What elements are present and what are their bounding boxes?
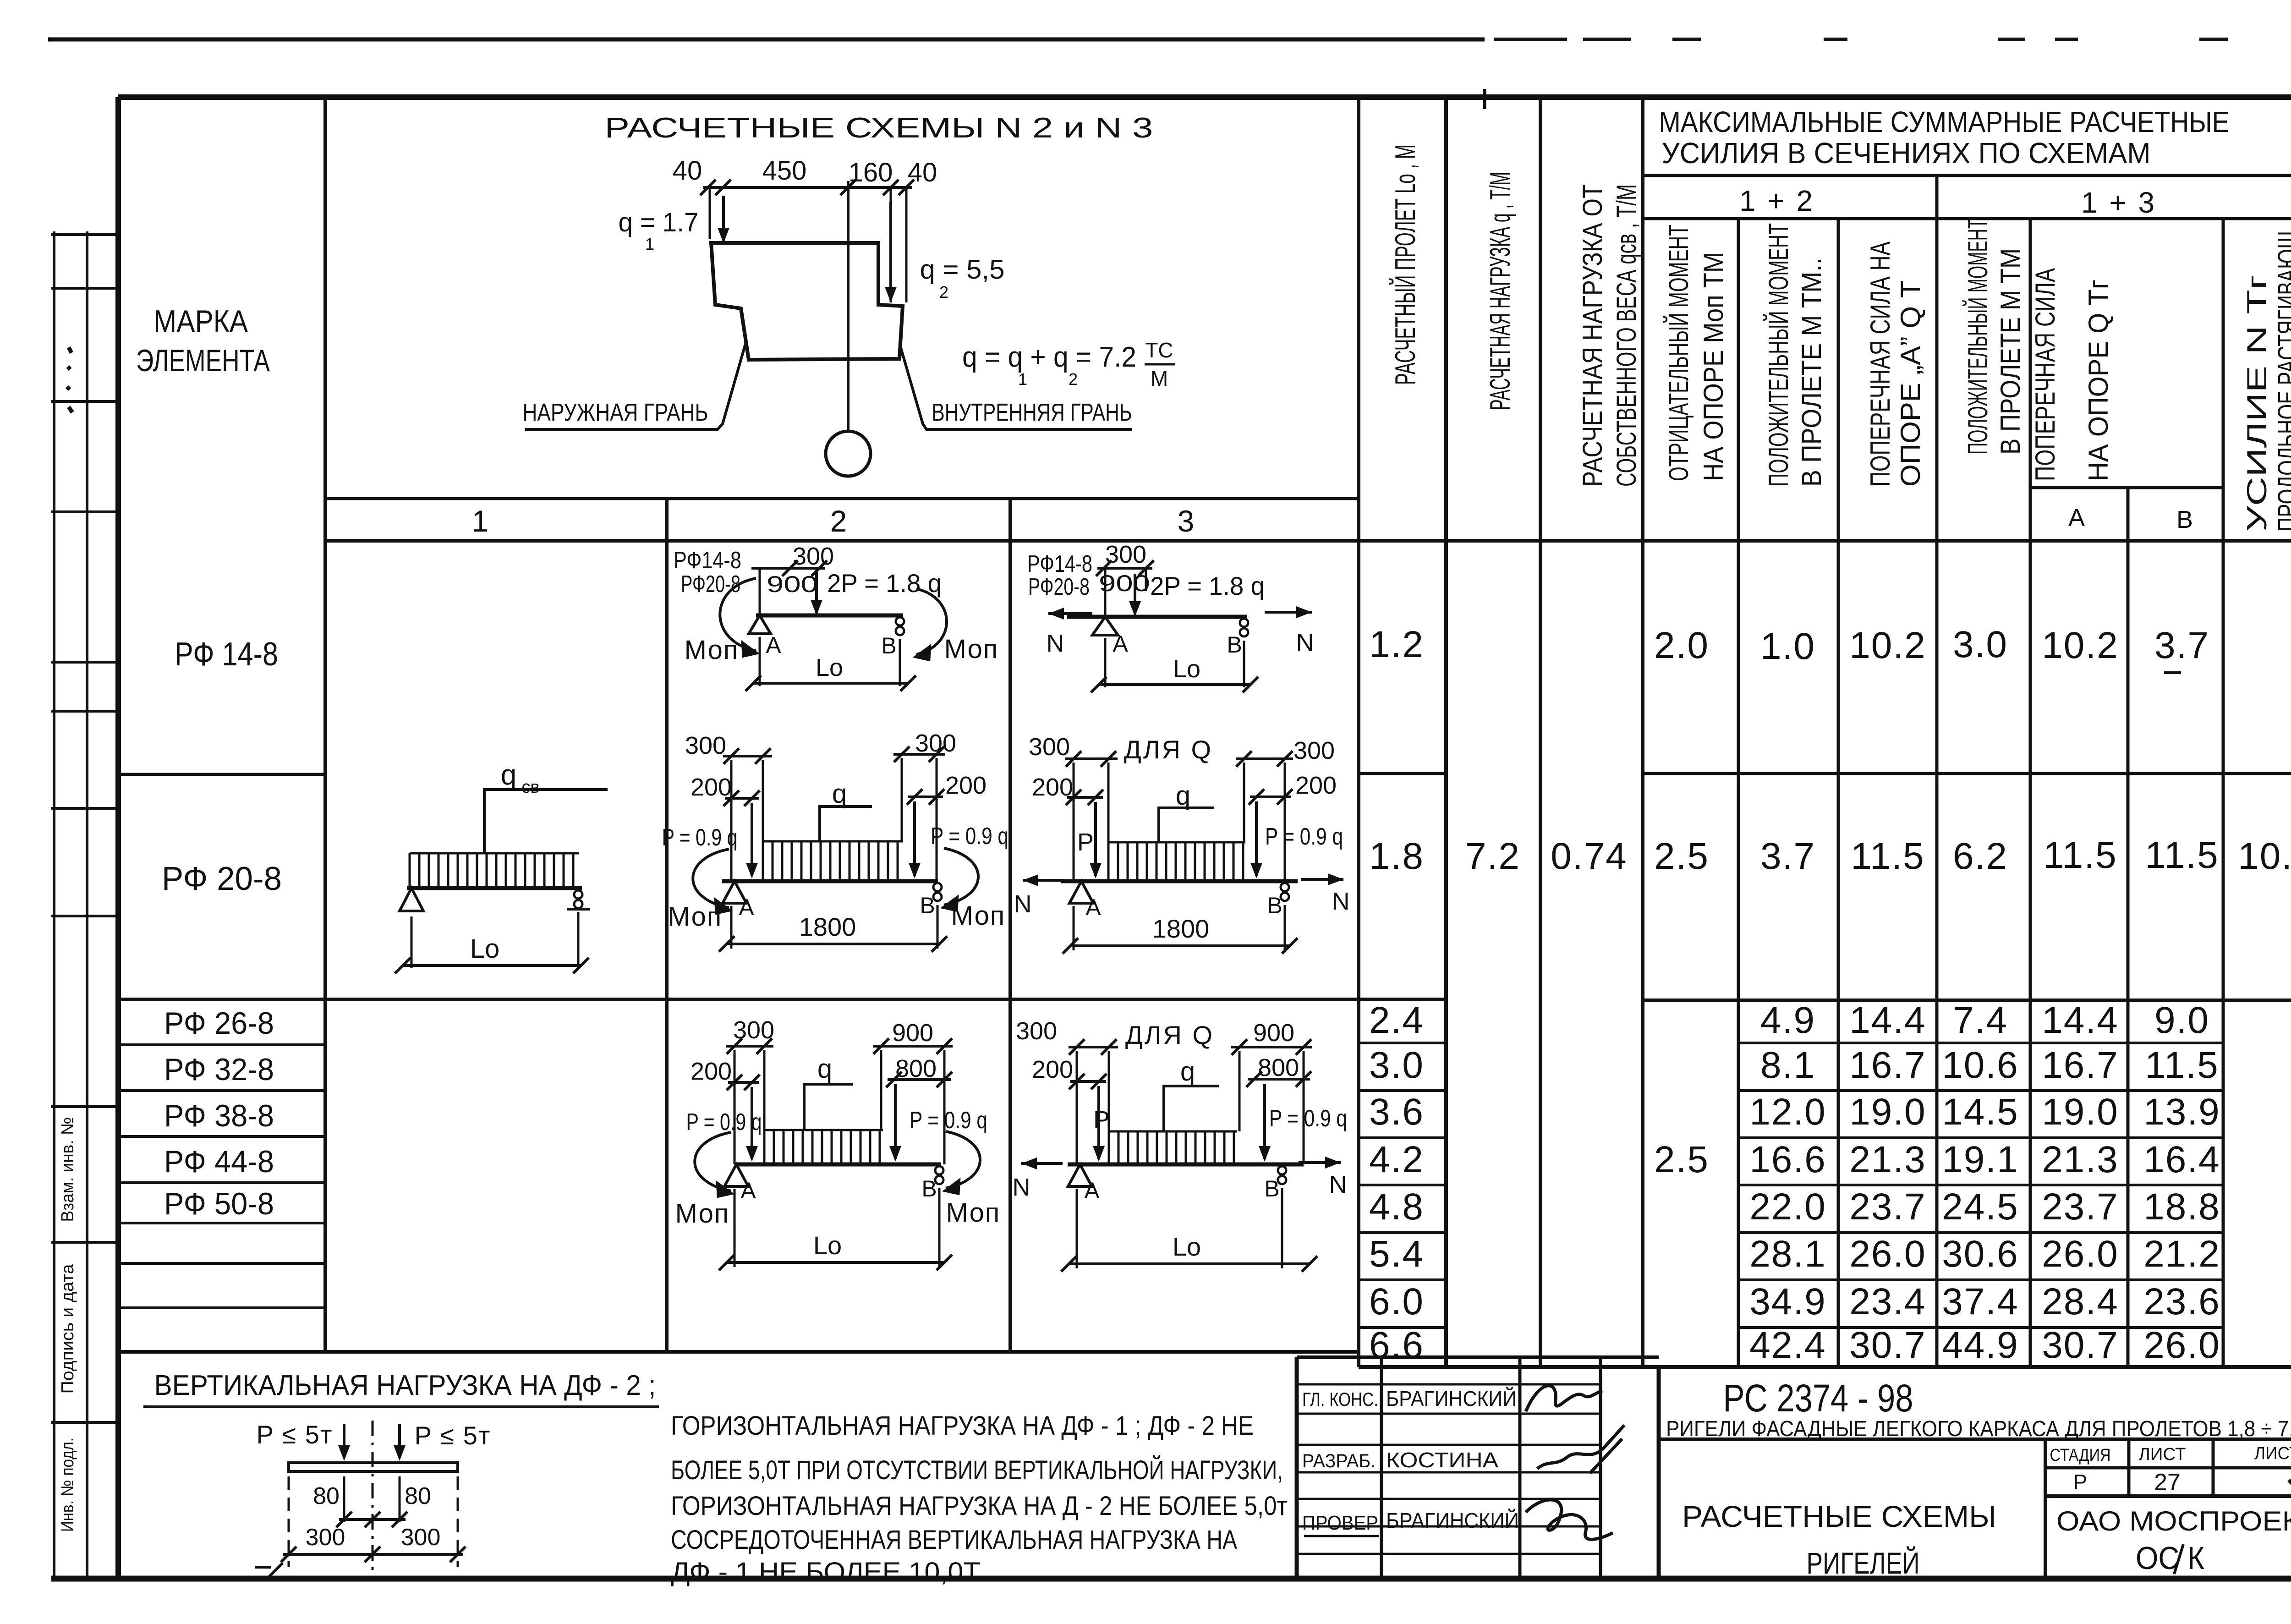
svg-text:В: В	[921, 1176, 937, 1202]
svg-text:В: В	[2176, 506, 2193, 533]
svg-text:3.0: 3.0	[1953, 624, 2008, 665]
narrow row lines marka column	[118, 1043, 325, 1046]
svg-text:8.1: 8.1	[1760, 1044, 1815, 1086]
svg-text:В ПРОЛЕТЕ М ТМ: В ПРОЛЕТЕ М ТМ	[1995, 248, 2026, 455]
svg-text:N: N	[1329, 1171, 1347, 1198]
c2m distributed load	[763, 841, 903, 880]
svg-text:ТС: ТС	[1145, 338, 1173, 362]
svg-text:1 + 3: 1 + 3	[2081, 186, 2156, 219]
svg-text:БРАГИНСКИЙ: БРАГИНСКИЙ	[1386, 1387, 1517, 1410]
svg-text:P = 0.9 q: P = 0.9 q	[910, 1107, 987, 1134]
svg-text:1800: 1800	[799, 912, 856, 941]
svg-text:900: 900	[1099, 571, 1150, 596]
svg-text:11.5: 11.5	[2043, 834, 2117, 876]
svg-text:q: q	[501, 759, 516, 791]
svg-text:СТАДИЯ: СТАДИЯ	[2050, 1446, 2111, 1465]
svg-text:В: В	[881, 633, 896, 658]
svg-text:300: 300	[1016, 1017, 1057, 1045]
svg-text:СОБСТВЕННОГО ВЕСА qсв , Т/М: СОБСТВЕННОГО ВЕСА qсв , Т/М	[1611, 184, 1642, 487]
c3l distributed load	[1109, 1131, 1237, 1163]
svg-text:4.2: 4.2	[1369, 1139, 1424, 1180]
c2u moment arc right	[916, 589, 947, 654]
narrow row lines Lo column	[1359, 1042, 1446, 1044]
c2m lower extension lines	[730, 906, 733, 949]
svg-text:А: А	[1084, 1178, 1100, 1203]
svg-text:21.2: 21.2	[2143, 1233, 2220, 1275]
svg-text:БОЛЕЕ 5,0Т ПРИ ОТСУТСТВИИ В: БОЛЕЕ 5,0Т ПРИ ОТСУТСТВИИ ВЕРТИКАЛЬНОЙ Н…	[671, 1455, 1283, 1485]
df2 plate	[289, 1463, 458, 1471]
svg-text:10.6: 10.6	[1942, 1044, 2019, 1086]
c2m beam	[722, 879, 938, 883]
svg-text:q: q	[832, 779, 847, 809]
svg-text:22.0: 22.0	[1749, 1186, 1826, 1228]
svg-text:N: N	[1332, 888, 1350, 915]
c2u support A	[749, 615, 771, 634]
c3l roller B	[1278, 1166, 1286, 1174]
margin stray marks	[67, 347, 72, 412]
c2u load point arrow 2P	[759, 568, 761, 615]
col1 qsv leader bracket	[484, 790, 608, 852]
svg-text:6.6: 6.6	[1369, 1324, 1424, 1366]
svg-text:800: 800	[1258, 1054, 1299, 1081]
svg-text:14.4: 14.4	[2042, 999, 2119, 1041]
svg-text:26.0: 26.0	[1849, 1233, 1926, 1275]
svg-text:А: А	[2068, 504, 2085, 532]
numeric table bottom	[1359, 1365, 2291, 1369]
svg-text:Lо: Lо	[1173, 1232, 1201, 1261]
c3u N arrow left	[1048, 612, 1092, 615]
svg-text:30.7: 30.7	[1849, 1324, 1926, 1366]
title block verticals	[1295, 1357, 1299, 1579]
svg-text:16.4: 16.4	[2143, 1139, 2220, 1180]
svg-text:А: А	[740, 1178, 756, 1203]
svg-text:3.7: 3.7	[1760, 835, 1815, 877]
svg-text:30.7: 30.7	[2042, 1324, 2119, 1366]
c2u beam	[756, 614, 903, 618]
svg-text:7.4: 7.4	[1953, 999, 2008, 1041]
svg-text:2.4: 2.4	[1369, 999, 1424, 1041]
svg-text:10.2: 10.2	[1849, 625, 1926, 666]
svg-text:16.7: 16.7	[2042, 1044, 2119, 1086]
svg-text:Lо: Lо	[813, 1231, 842, 1260]
svg-text:10.2: 10.2	[2042, 625, 2119, 666]
svg-text:РФ14-8: РФ14-8	[674, 547, 741, 574]
svg-text:80: 80	[313, 1483, 340, 1509]
svg-text:300: 300	[685, 732, 726, 759]
svg-text:N: N	[1013, 1174, 1030, 1201]
svg-text:12.0: 12.0	[1749, 1091, 1826, 1133]
svg-text:ПРОВЕР: ПРОВЕР	[1302, 1512, 1378, 1534]
left table bottom	[118, 1350, 1359, 1354]
svg-text:P = 0.9 q: P = 0.9 q	[662, 824, 738, 851]
svg-text:Р: Р	[2073, 1470, 2088, 1494]
svg-text:ГОРИЗОНТАЛЬНАЯ НАГРУЗКА НА: ГОРИЗОНТАЛЬНАЯ НАГРУЗКА НА ДФ - 1 ; ДФ -…	[671, 1411, 1254, 1441]
svg-text:РАСЧЕТНЫЕ СХЕМЫ N 2 и: РАСЧЕТНЫЕ СХЕМЫ N 2 и N 3	[605, 112, 1153, 144]
svg-text:300: 300	[793, 543, 834, 570]
svg-text:НА ОПОРЕ Моп ТМ: НА ОПОРЕ Моп ТМ	[1698, 252, 1729, 481]
svg-text:300: 300	[306, 1524, 345, 1551]
svg-text:44.9: 44.9	[1942, 1324, 2019, 1366]
svg-text:УСИЛИЕ N Тг: УСИЛИЕ N Тг	[2242, 275, 2272, 532]
svg-text:27: 27	[2154, 1469, 2181, 1496]
svg-text:37.4: 37.4	[1942, 1281, 2019, 1322]
signature 3	[1526, 1500, 1613, 1540]
svg-text:N: N	[1296, 629, 1314, 656]
svg-text:РФ 44-8: РФ 44-8	[164, 1144, 274, 1179]
svg-text:q: q	[1176, 781, 1190, 811]
svg-text:Инв. № подл.: Инв. № подл.	[58, 1437, 77, 1532]
svg-text:1: 1	[472, 504, 489, 538]
svg-text:Моп: Моп	[951, 901, 1006, 931]
df2 load arrows	[343, 1424, 345, 1458]
c3l N arrow left	[1021, 1162, 1063, 1165]
svg-text:14.5: 14.5	[1942, 1091, 2019, 1133]
df2 dashed edge lines	[288, 1476, 290, 1567]
c2l moment arc right	[946, 1131, 980, 1188]
c2l roller B	[935, 1166, 943, 1174]
table verticals	[323, 97, 327, 1352]
c3l support A triangle	[1068, 1164, 1092, 1186]
title block row lines	[1297, 1383, 1600, 1386]
cross-section top dimension line	[703, 186, 912, 189]
svg-text:900: 900	[767, 571, 818, 597]
svg-text:4.8: 4.8	[1369, 1186, 1424, 1228]
svg-text:23.7: 23.7	[2042, 1186, 2119, 1228]
svg-text:св: св	[521, 778, 539, 797]
svg-text:ВЕРТИКАЛЬНАЯ НАГРУЗКА НА Д: ВЕРТИКАЛЬНАЯ НАГРУЗКА НА ДФ - 2 ;	[154, 1370, 656, 1401]
svg-text:P = 0.9 q: P = 0.9 q	[686, 1109, 762, 1136]
svg-text:ДЛЯ Q: ДЛЯ Q	[1125, 1020, 1214, 1049]
svg-text:23.6: 23.6	[2143, 1281, 2220, 1322]
sheet frame	[118, 94, 2291, 100]
svg-text:1.2: 1.2	[1369, 624, 1424, 665]
col1 support triangle A	[400, 888, 423, 911]
svg-text:ЛИСТ: ЛИСТ	[2139, 1445, 2186, 1464]
svg-text:21.3: 21.3	[1849, 1139, 1926, 1180]
svg-text:3.6: 3.6	[1369, 1091, 1424, 1133]
svg-text:3.0: 3.0	[1369, 1044, 1424, 1086]
svg-text:ДФ - 1 НЕ БОЛЕЕ 10,0Т.: ДФ - 1 НЕ БОЛЕЕ 10,0Т.	[671, 1557, 985, 1587]
c3u Lo dimension	[1099, 683, 1250, 686]
svg-text:900: 900	[1253, 1019, 1294, 1047]
svg-text:В: В	[1227, 632, 1242, 658]
svg-text:БРАГИНСКИЙ: БРАГИНСКИЙ	[1386, 1509, 1519, 1532]
c2m roller B	[933, 883, 942, 891]
col1 distributed load	[410, 853, 579, 888]
svg-text:Lо: Lо	[470, 934, 500, 964]
svg-text:0.74: 0.74	[1551, 835, 1628, 877]
svg-text:А: А	[766, 632, 781, 658]
svg-text:11.5: 11.5	[2145, 1044, 2219, 1086]
svg-text:ГОРИЗОНТАЛЬНАЯ НАГРУЗКА НА: ГОРИЗОНТАЛЬНАЯ НАГРУЗКА НА Д - 2 НЕ БОЛЕ…	[671, 1491, 1288, 1521]
svg-text:P ≤ 5т: P ≤ 5т	[257, 1420, 333, 1449]
svg-text:Моп: Моп	[685, 635, 739, 665]
stage boxes	[2044, 1439, 2047, 1579]
leader ВНУТРЕННЯЯ ГРАНЬ	[899, 343, 1132, 429]
svg-text:МАРКА: МАРКА	[153, 304, 248, 339]
svg-text:Моп: Моп	[946, 1198, 1001, 1228]
svg-text:РАСЧЕТНЫЕ СХЕМЫ: РАСЧЕТНЫЕ СХЕМЫ	[1682, 1499, 1996, 1533]
svg-text:4.9: 4.9	[1760, 999, 1815, 1041]
svg-text:200: 200	[1032, 774, 1073, 801]
c3l load arrows	[1097, 1086, 1100, 1159]
svg-text:ЭЛЕМЕНТА: ЭЛЕМЕНТА	[136, 343, 270, 378]
svg-text:P: P	[1093, 1106, 1110, 1134]
svg-text:РИГЕЛЕЙ: РИГЕЛЕЙ	[1807, 1546, 1920, 1580]
c3u N arrow right	[1265, 611, 1312, 614]
c3m lower extension lines	[1073, 906, 1075, 950]
svg-text:q = q + q = 7.2: q = q + q = 7.2	[962, 341, 1136, 373]
c2m extension verticals	[730, 760, 733, 881]
c3m beam	[1061, 879, 1298, 883]
svg-text:В: В	[1264, 1176, 1279, 1202]
c2u roller B	[896, 617, 904, 625]
c2l lower extension lines	[734, 1189, 736, 1267]
c2l distributed load	[764, 1130, 883, 1163]
narrow row lines forces columns	[1738, 1042, 2223, 1044]
svg-text:НАРУЖНАЯ ГРАНЬ: НАРУЖНАЯ ГРАНЬ	[523, 399, 708, 426]
c2l support A triangle	[724, 1164, 748, 1186]
svg-text:МАКСИМАЛЬНЫЕ СУММАРНЫЕ РАСЧЕ: МАКСИМАЛЬНЫЕ СУММАРНЫЕ РАСЧЕТНЫЕ	[1659, 105, 2230, 138]
svg-text:РФ 38-8: РФ 38-8	[164, 1098, 274, 1133]
c2l moment arc left	[695, 1132, 731, 1191]
svg-text:ОАО МОСПРОЕКТ: ОАО МОСПРОЕКТ	[2056, 1506, 2291, 1536]
svg-text:ОТРИЦАТЕЛЬНЫЙ МОМЕНТ: ОТРИЦАТЕЛЬНЫЙ МОМЕНТ	[1663, 225, 1694, 481]
svg-text:10.0: 10.0	[2238, 835, 2291, 877]
svg-text:РАЗРАБ.: РАЗРАБ.	[1302, 1450, 1376, 1471]
svg-text:1.0: 1.0	[1760, 625, 1815, 667]
svg-text:2: 2	[830, 504, 847, 538]
svg-text:ПОПЕРЕЧНАЯ СИЛА: ПОПЕРЕЧНАЯ СИЛА	[2030, 268, 2061, 481]
svg-text:Моп: Моп	[668, 902, 723, 932]
c2m load arrows	[751, 803, 753, 876]
svg-text:18.8: 18.8	[2143, 1186, 2220, 1228]
svg-text:ОПОРЕ „А” Q Т: ОПОРЕ „А” Q Т	[1895, 280, 1926, 487]
svg-text:ГЛ. КОНС.: ГЛ. КОНС.	[1302, 1388, 1378, 1410]
svg-text:РАСЧЕТНАЯ НАГРУЗКА q , Т/М: РАСЧЕТНАЯ НАГРУЗКА q , Т/М	[1485, 172, 1516, 410]
svg-text:19.0: 19.0	[1849, 1091, 1926, 1133]
c3m extension verticals	[1073, 763, 1075, 881]
svg-text:300: 300	[1105, 541, 1146, 568]
svg-text:q: q	[817, 1054, 832, 1084]
svg-text:P = 0.9 q: P = 0.9 q	[1265, 823, 1343, 850]
signature 2	[1537, 1425, 1624, 1473]
cross-section q1 arrow	[709, 187, 711, 239]
svg-text:13.9: 13.9	[2143, 1091, 2220, 1133]
svg-text:200: 200	[1032, 1056, 1073, 1083]
svg-text:Подпись и дата: Подпись и дата	[58, 1264, 77, 1394]
cross-section axis circle	[826, 431, 871, 476]
svg-text:2P = 1.8 q: 2P = 1.8 q	[827, 569, 942, 598]
svg-text:РАСЧЕТНАЯ НАГРУЗКА ОТ: РАСЧЕТНАЯ НАГРУЗКА ОТ	[1577, 184, 1608, 487]
svg-text:Взам. инв. №: Взам. инв. №	[58, 1117, 77, 1222]
svg-text:Моп: Моп	[675, 1199, 730, 1229]
svg-text:2: 2	[939, 283, 948, 302]
signature 1	[1526, 1386, 1602, 1411]
leader НАРУЖНАЯ ГРАНЬ	[525, 344, 745, 429]
svg-text:РАСЧЕТНЫЙ ПРОЛЕТ Lо , М: РАСЧЕТНЫЙ ПРОЛЕТ Lо , М	[1389, 144, 1421, 385]
svg-text:ЛИСТОВ: ЛИСТОВ	[2254, 1444, 2291, 1463]
c2u Lo dimension	[753, 682, 908, 685]
svg-text:РФ20-8: РФ20-8	[1028, 574, 1090, 600]
table horizontals	[1643, 174, 2291, 177]
svg-text:P = 0.9 q: P = 0.9 q	[1269, 1105, 1347, 1132]
c2m support A triangle	[723, 881, 746, 903]
svg-text:РС 2374 - 98: РС 2374 - 98	[1723, 1377, 1913, 1420]
svg-text:ОС К: ОС К	[2136, 1540, 2204, 1576]
svg-text:РФ 26-8: РФ 26-8	[164, 1006, 274, 1041]
scan top edge line	[48, 38, 1485, 42]
svg-text:q = 1.7: q = 1.7	[619, 208, 699, 237]
svg-text:А: А	[1085, 894, 1101, 920]
svg-text:5.4: 5.4	[1369, 1233, 1424, 1275]
svg-text:q: q	[1180, 1057, 1195, 1086]
svg-text:РФ 32-8: РФ 32-8	[164, 1052, 274, 1087]
cross-section q2 extension lines	[890, 187, 892, 302]
svg-text:ПОПЕРЕЧНАЯ СИЛА НА: ПОПЕРЕЧНАЯ СИЛА НА	[1865, 241, 1896, 487]
svg-text:УСИЛИЯ В СЕЧЕНИЯХ ПО СХЕМА: УСИЛИЯ В СЕЧЕНИЯХ ПО СХЕМАМ	[1662, 137, 2151, 170]
c2l extension verticals	[734, 1050, 736, 1164]
svg-text:900: 900	[892, 1019, 933, 1047]
svg-text:2P = 1.8 q: 2P = 1.8 q	[1150, 571, 1265, 600]
c3m N arrow right	[1301, 878, 1343, 881]
svg-text:P: P	[1077, 828, 1094, 856]
svg-text:3: 3	[1178, 504, 1195, 538]
svg-text:3.7: 3.7	[2154, 625, 2209, 666]
svg-text:16.7: 16.7	[1849, 1044, 1926, 1086]
svg-text:300: 300	[1029, 733, 1070, 761]
svg-text:РФ20-8: РФ20-8	[681, 571, 740, 598]
col1 extension lines	[411, 916, 413, 968]
svg-text:А: А	[1113, 631, 1128, 657]
svg-text:РФ 50-8: РФ 50-8	[164, 1186, 274, 1221]
col1 beam	[407, 886, 582, 890]
c3u extension lines	[1104, 638, 1107, 687]
svg-text:28.1: 28.1	[1749, 1233, 1826, 1275]
c3l beam	[1068, 1163, 1304, 1167]
c3u roller B	[1240, 619, 1248, 627]
svg-text:N: N	[1047, 630, 1064, 657]
bottom section top line	[118, 1350, 1297, 1354]
svg-text:28.4: 28.4	[2042, 1281, 2119, 1322]
svg-text:40: 40	[673, 156, 702, 186]
svg-text:26.0: 26.0	[2143, 1324, 2220, 1366]
svg-text:РФ 20-8: РФ 20-8	[162, 861, 282, 897]
c2l load arrows	[751, 1087, 753, 1159]
svg-text:23.4: 23.4	[1849, 1281, 1926, 1322]
df2 stray slash	[267, 1563, 283, 1579]
svg-text:6.0: 6.0	[1369, 1281, 1424, 1322]
svg-text:11.5: 11.5	[2145, 834, 2219, 876]
c3m roller B	[1281, 883, 1289, 891]
col1 roller support B	[574, 890, 582, 899]
svg-text:200: 200	[691, 1058, 732, 1085]
svg-text:160: 160	[849, 158, 893, 187]
svg-text:1.8: 1.8	[1369, 835, 1424, 877]
svg-text:23.7: 23.7	[1849, 1186, 1926, 1228]
svg-text:ВНУТРЕННЯЯ ГРАНЬ: ВНУТРЕННЯЯ ГРАНЬ	[932, 399, 1132, 426]
svg-text:P ≤ 5т: P ≤ 5т	[415, 1421, 491, 1450]
svg-text:В: В	[1267, 893, 1282, 918]
c3u support A	[1092, 617, 1118, 635]
svg-text:2.5: 2.5	[1654, 1139, 1709, 1180]
svg-text:200: 200	[945, 772, 987, 799]
svg-text:q = 5,5: q = 5,5	[920, 255, 1005, 285]
c3m distributed load	[1108, 842, 1245, 880]
c3l N arrow right	[1299, 1161, 1341, 1164]
svg-text:1: 1	[645, 235, 654, 253]
cross-section beam profile	[711, 243, 903, 360]
value листов smudge	[2289, 1478, 2291, 1493]
svg-text:1800: 1800	[1152, 914, 1210, 943]
svg-text:14.4: 14.4	[1849, 999, 1926, 1041]
svg-text:7.2: 7.2	[1465, 835, 1520, 877]
svg-text:200: 200	[1295, 772, 1337, 799]
svg-text:11.5: 11.5	[1851, 835, 1925, 877]
c3u beam	[1067, 615, 1247, 619]
svg-text:80: 80	[405, 1483, 431, 1509]
svg-text:30.6: 30.6	[1942, 1233, 2019, 1275]
svg-text:19.0: 19.0	[2042, 1091, 2119, 1133]
svg-text:Lо: Lо	[1173, 655, 1200, 683]
svg-text:Моп: Моп	[944, 634, 999, 664]
svg-text:ДЛЯ Q: ДЛЯ Q	[1124, 735, 1213, 764]
svg-text:9.0: 9.0	[2154, 999, 2209, 1041]
c3m N arrow left	[1023, 879, 1064, 882]
svg-text:Lо: Lо	[816, 654, 843, 681]
svg-text:300: 300	[401, 1524, 441, 1551]
svg-text:ПОЛОЖИТЕЛЬНЫЙ МОМЕНТ: ПОЛОЖИТЕЛЬНЫЙ МОМЕНТ	[1763, 223, 1794, 487]
c3l lower extension lines	[1076, 1189, 1078, 1268]
svg-text:1: 1	[1018, 370, 1027, 389]
cross-section q2 arrow	[889, 202, 892, 300]
svg-text:2.0: 2.0	[1654, 625, 1709, 666]
df2 extension lines	[343, 1476, 345, 1522]
svg-text:М: М	[1151, 367, 1168, 390]
svg-text:В ПРОЛЕТЕ М ТМ..: В ПРОЛЕТЕ М ТМ..	[1796, 258, 1827, 487]
svg-text:26.0: 26.0	[2042, 1233, 2119, 1275]
c2m moment arc left	[693, 849, 729, 908]
svg-text:СОСРЕДОТОЧЕННАЯ ВЕРТИКАЛЬНАЯ: СОСРЕДОТОЧЕННАЯ ВЕРТИКАЛЬНАЯ НАГРУЗКА НА	[671, 1525, 1237, 1555]
svg-text:1 + 2: 1 + 2	[1739, 184, 1814, 217]
margin strip verticals	[53, 231, 55, 1579]
svg-text:42.4: 42.4	[1749, 1324, 1826, 1366]
c3m support A triangle	[1069, 881, 1093, 903]
svg-text:А: А	[739, 894, 754, 920]
svg-text:2: 2	[1069, 370, 1078, 389]
svg-text:21.3: 21.3	[2042, 1139, 2119, 1180]
svg-text:300: 300	[1293, 737, 1335, 764]
svg-text:450: 450	[762, 156, 807, 186]
svg-text:N: N	[1014, 890, 1032, 918]
c2l beam	[734, 1163, 941, 1167]
svg-text:34.9: 34.9	[1749, 1281, 1826, 1322]
c2u extension lines	[759, 637, 761, 686]
c2u moment arc left	[720, 578, 756, 651]
col1 Lo dimension	[403, 964, 581, 967]
svg-text:24.5: 24.5	[1942, 1186, 2019, 1228]
c3l extension verticals	[1076, 1051, 1078, 1164]
svg-text:6.2: 6.2	[1953, 835, 2008, 877]
c3u load point arrow	[1104, 568, 1107, 617]
svg-text:РФ 14-8: РФ 14-8	[175, 636, 278, 673]
svg-text:ПОЛОЖИТЕЛЬНЫЙ МОМЕНТ: ПОЛОЖИТЕЛЬНЫЙ МОМЕНТ	[1962, 219, 1993, 455]
svg-text:ПРОДОЛЬНОЕ РАСТЯГИВАЮЩ.: ПРОДОЛЬНОЕ РАСТЯГИВАЮЩ.	[2272, 225, 2291, 532]
svg-text:16.6: 16.6	[1749, 1139, 1826, 1180]
c3m load arrows	[1094, 802, 1097, 876]
cross-section axis line	[847, 181, 850, 431]
svg-text:В: В	[920, 893, 935, 918]
